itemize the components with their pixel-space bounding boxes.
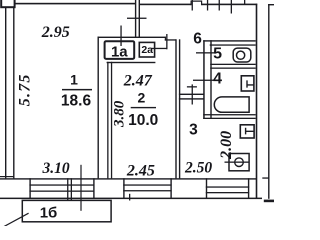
wall hallway-kitchen a [179, 94, 204, 95]
svg-text:6: 6 [193, 31, 202, 48]
wall band vertical x206 [206, 178, 207, 198]
tick below band [129, 194, 130, 201]
room label 1 underline [62, 89, 92, 91]
svg-text:2а: 2а [141, 44, 153, 56]
wall right of apartment [256, 4, 258, 199]
wire hall stub horizontal [165, 39, 177, 40]
wire top wall right section b [202, 4, 257, 6]
svg-text:3.80: 3.80 [111, 100, 127, 128]
svg-text:4: 4 [213, 71, 222, 88]
tick top 4 [231, 0, 232, 14]
wall band vertical x171 [170, 178, 171, 198]
wall band top right segment [262, 177, 269, 178]
tick across neighbor wall [127, 18, 147, 19]
wall hallway-kitchen b [179, 98, 204, 99]
wall left outer line [5, 7, 6, 179]
wire hall stub vertical [165, 37, 166, 41]
wall band vertical x30 [29, 178, 30, 198]
tick top 5 [244, 0, 245, 5]
tick top 2 [207, 0, 208, 11]
room label 2 underline [131, 107, 156, 108]
tick closet 2a right horizontal [151, 48, 167, 49]
balcony diagonal leader [4, 213, 29, 227]
tick left wall bottom [0, 176, 15, 177]
window2 line a [123, 184, 171, 185]
wall room1 right [98, 37, 99, 179]
bathtub [214, 97, 249, 112]
svg-text:1а: 1а [111, 43, 128, 60]
wall room5 top inner line [210, 44, 256, 45]
svg-text:2.45: 2.45 [126, 162, 155, 179]
svg-text:2.95: 2.95 [41, 24, 70, 41]
sink line [225, 162, 250, 163]
wall room4 bottom a [203, 114, 256, 115]
svg-text:3.10: 3.10 [41, 160, 69, 177]
balcony 1b box [22, 200, 111, 221]
tick door room5 [196, 52, 214, 53]
svg-text:1: 1 [70, 72, 78, 88]
closet 1a box [105, 41, 135, 59]
window1 divider tick a [67, 178, 68, 200]
wall closet bottom line [107, 62, 156, 63]
wall room2 left double a [107, 62, 108, 179]
tick kitchen door horizontal [187, 86, 197, 87]
wall bath block top [203, 40, 256, 41]
tap symbol room4 [247, 80, 254, 87]
wall bath block left outer [203, 40, 205, 119]
wall rooms 5-4 divider a [210, 64, 256, 65]
wall band vertical x245 [248, 178, 249, 198]
tap square kitchen [240, 125, 254, 138]
svg-text:2.47: 2.47 [123, 73, 153, 90]
wall neighbor vertical double right [139, 0, 140, 38]
wall closet top line [98, 37, 166, 38]
wall band vertical x94 [93, 178, 94, 198]
wall far right vertical [268, 4, 269, 199]
wall band vertical x124 [123, 178, 124, 198]
wire far right top stub [268, 4, 274, 5]
wire top wall bump [191, 1, 203, 6]
toilet U5 bowl circle [237, 51, 245, 59]
svg-text:10.0: 10.0 [128, 112, 158, 129]
wall bath block left inner [210, 40, 211, 119]
wall room2 right double a [175, 39, 176, 178]
svg-text:3: 3 [189, 121, 198, 138]
svg-text:2: 2 [138, 90, 146, 106]
tick top 1 [192, 0, 193, 11]
wall room2 right double b [179, 39, 180, 178]
svg-text:5.75: 5.75 [17, 73, 34, 106]
window3 line b [206, 192, 249, 193]
svg-text:1б: 1б [40, 204, 58, 221]
tap symbol kitchen [246, 128, 255, 135]
wire top wall right section a [140, 4, 191, 6]
sink circle [235, 158, 244, 167]
wall rooms 5-4 divider b [210, 68, 256, 69]
wall band top line [0, 178, 257, 179]
tick top 3 [219, 0, 220, 11]
svg-text:2.50: 2.50 [184, 160, 212, 177]
window1 long tick [80, 165, 81, 211]
tap square room4 [241, 76, 254, 91]
wall room2 left double b [111, 62, 112, 179]
tick kitchen door vertical [192, 84, 193, 104]
toilet U5 cistern [233, 48, 251, 62]
svg-text:18.6: 18.6 [61, 92, 92, 109]
wall neighbor vertical double left [135, 0, 136, 38]
wall top-left vent box [1, 0, 14, 7]
sink square kitchen [229, 154, 249, 171]
wall left inner line [13, 7, 14, 179]
tick door room4 [193, 80, 214, 81]
wire top wall left section [15, 3, 136, 5]
window1 divider tick b [71, 178, 72, 200]
window3 line a [206, 186, 249, 187]
closet 2a box [139, 42, 154, 57]
svg-text:2.00: 2.00 [218, 131, 235, 160]
wall room4 bottom b [203, 118, 256, 119]
tick closet 2a right vertical [166, 34, 167, 49]
window2 line b [123, 190, 171, 191]
wire far right bottom stub [264, 200, 274, 203]
svg-text:5: 5 [213, 45, 222, 62]
window1 line b [29, 191, 94, 192]
wall band bottom line [0, 198, 262, 200]
tick closet top [120, 26, 121, 47]
window1 line a [29, 184, 94, 185]
